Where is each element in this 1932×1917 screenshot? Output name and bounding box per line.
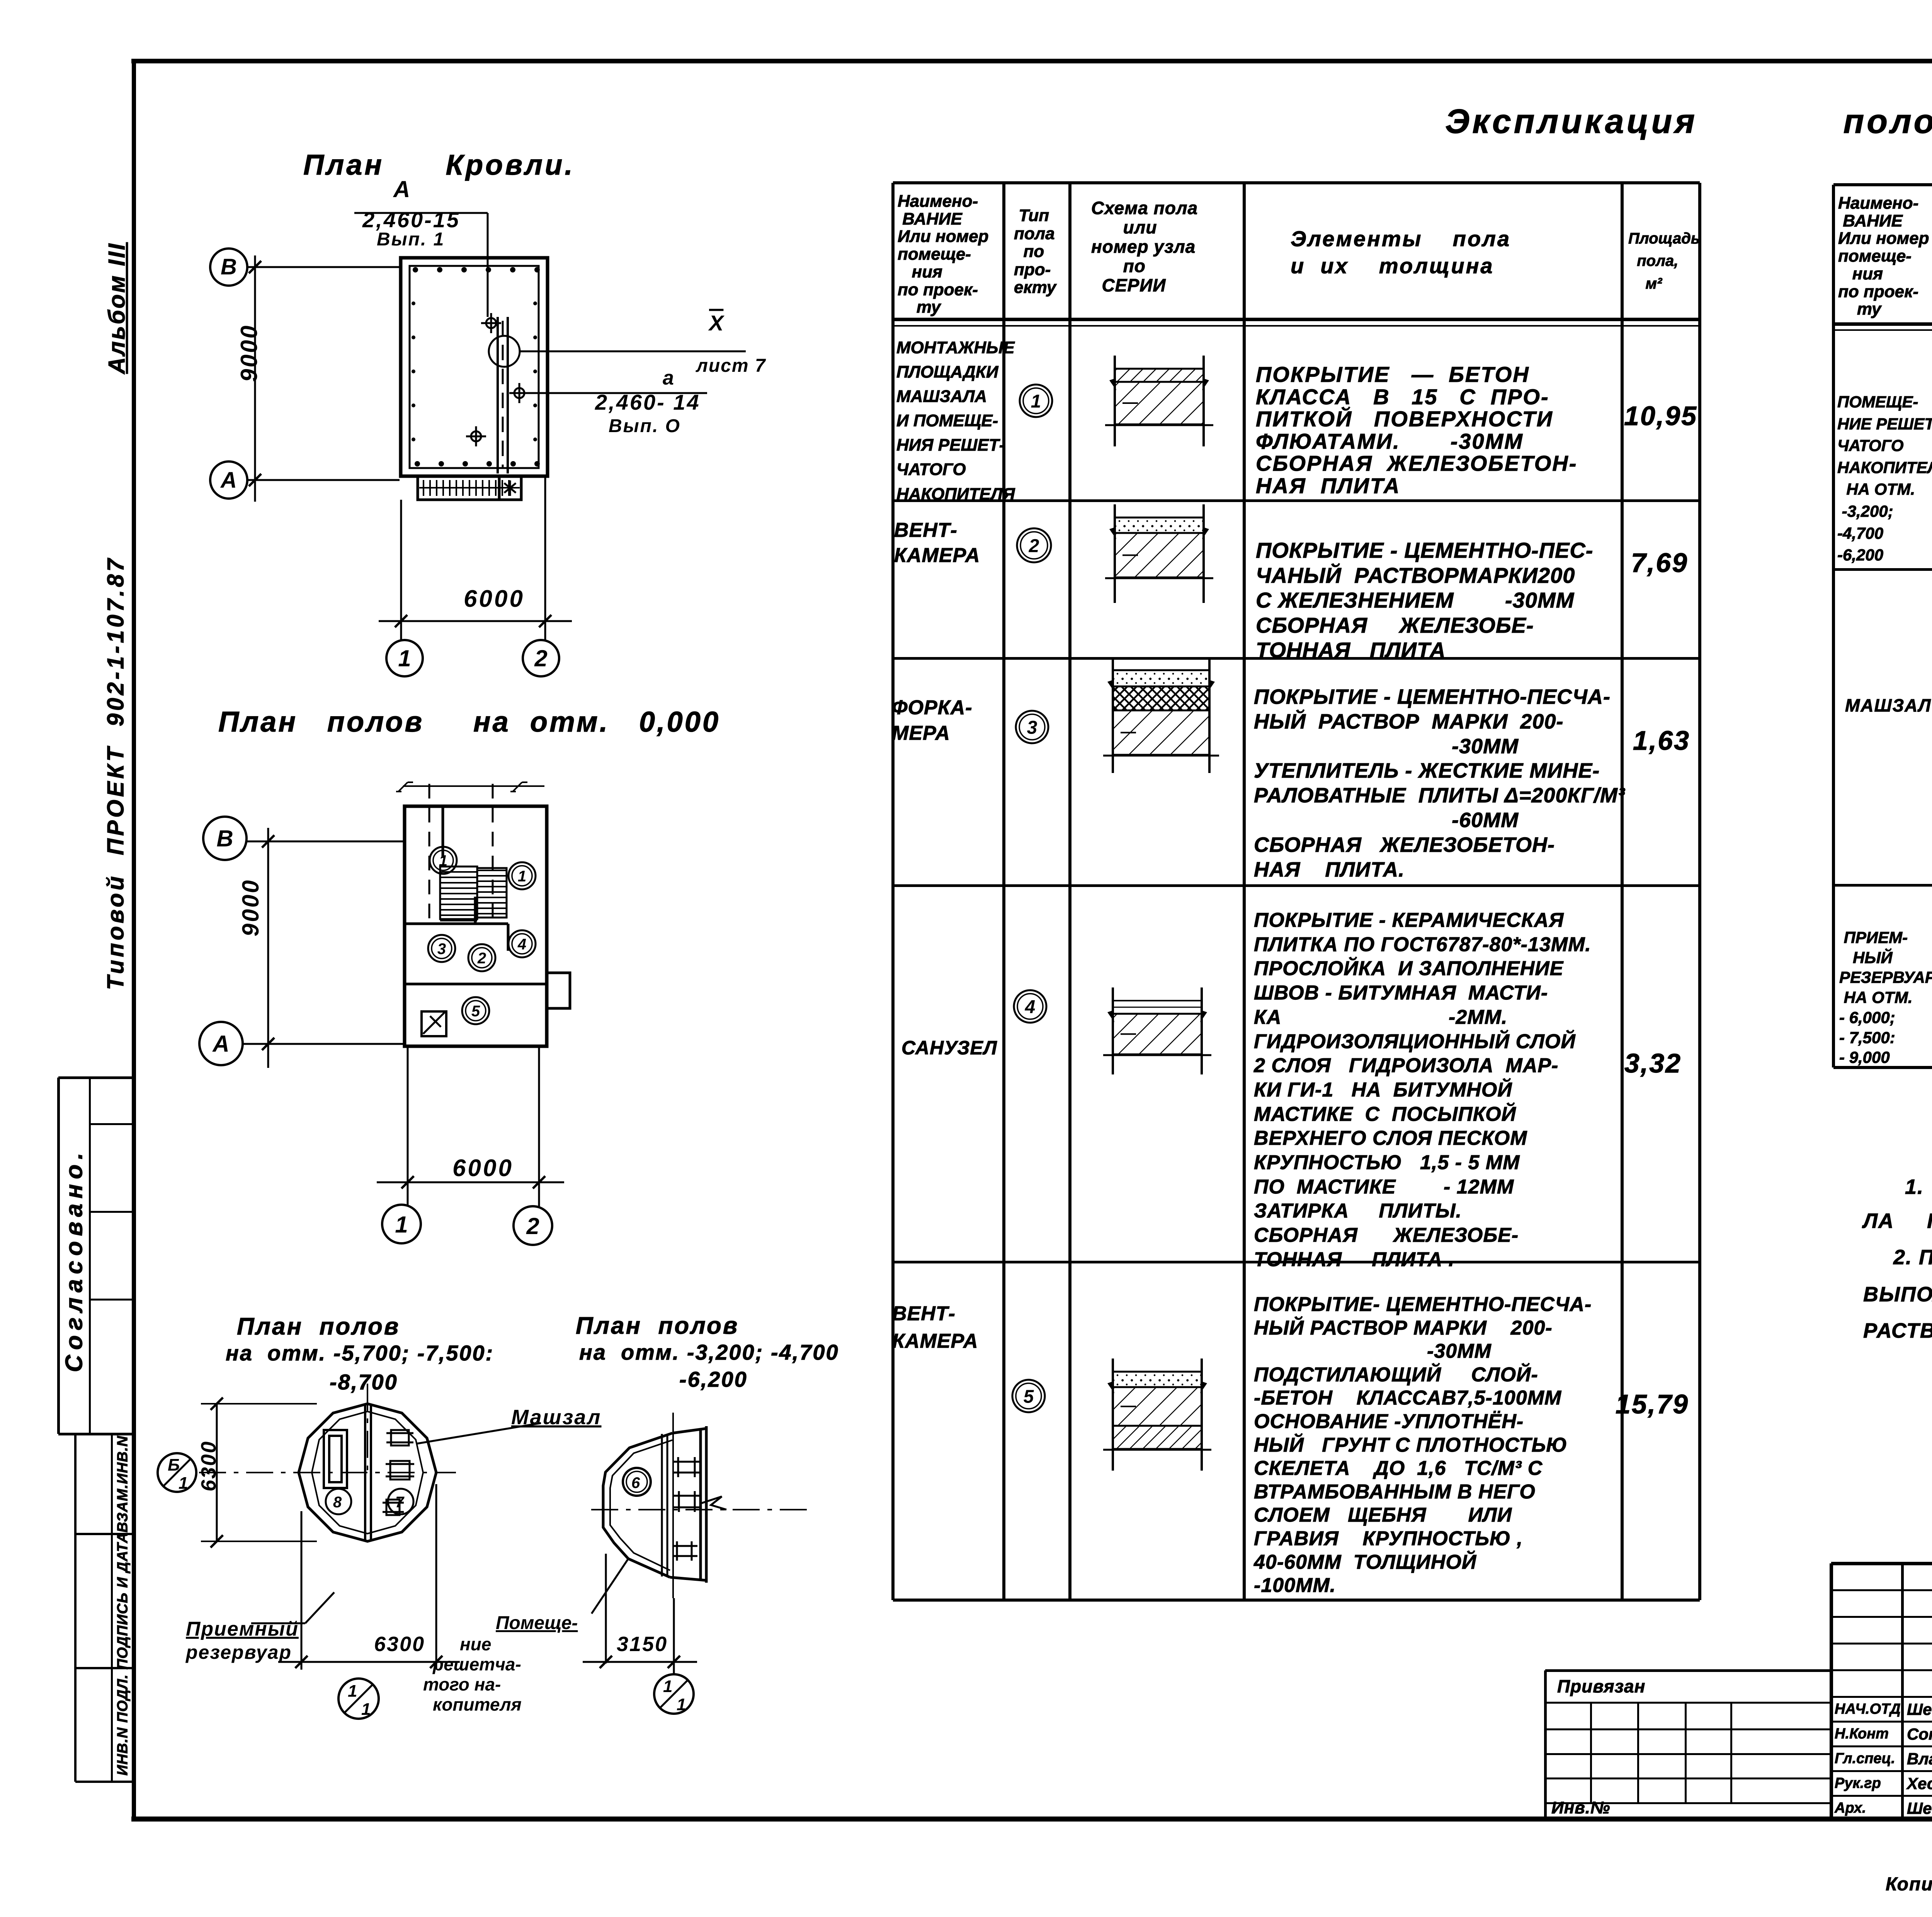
svg-text:7: 7 [395, 1494, 405, 1511]
svg-text:а: а [663, 367, 674, 389]
svg-text:1: 1 [518, 868, 526, 885]
svg-text:Машзал: Машзал [511, 1406, 602, 1429]
svg-text:Приемный: Приемный [186, 1618, 299, 1640]
svg-text:1: 1 [361, 1700, 371, 1719]
svg-text:копителя: копителя [433, 1694, 522, 1714]
svg-text:Вып. О: Вып. О [609, 416, 681, 436]
svg-text:2: 2 [526, 1213, 539, 1239]
svg-text:8: 8 [333, 1494, 342, 1511]
svg-text:В: В [216, 826, 233, 851]
svg-text:3: 3 [437, 940, 446, 957]
svg-text:Помеще-: Помеще- [496, 1613, 578, 1633]
svg-text:Б: Б [168, 1456, 180, 1474]
svg-text:9000: 9000 [238, 879, 264, 936]
svg-text:2: 2 [1029, 536, 1039, 556]
svg-text:6: 6 [631, 1474, 640, 1491]
svg-text:9000: 9000 [236, 324, 262, 382]
svg-text:1: 1 [395, 1212, 408, 1238]
svg-text:2: 2 [477, 950, 486, 967]
svg-text:1: 1 [439, 852, 447, 869]
svg-text:X: X [708, 311, 725, 335]
svg-text:2: 2 [534, 645, 547, 671]
svg-text:1: 1 [398, 645, 411, 671]
svg-text:1: 1 [179, 1474, 188, 1493]
svg-text:А: А [220, 468, 237, 493]
svg-text:1: 1 [677, 1695, 686, 1714]
svg-text:6300: 6300 [374, 1633, 425, 1656]
svg-text:6300: 6300 [197, 1440, 220, 1491]
svg-text:В: В [221, 254, 237, 279]
svg-text:того на-: того на- [423, 1674, 501, 1694]
svg-text:4: 4 [1025, 997, 1036, 1017]
svg-text:ние: ние [460, 1634, 491, 1654]
svg-text:6000: 6000 [452, 1155, 514, 1182]
svg-text:5: 5 [471, 1003, 480, 1020]
svg-text:Вып. 1: Вып. 1 [377, 229, 445, 250]
svg-text:1: 1 [663, 1677, 672, 1696]
svg-text:1: 1 [1031, 391, 1041, 412]
svg-text:4: 4 [517, 936, 526, 953]
svg-text:А: А [393, 176, 410, 202]
svg-text:6000: 6000 [464, 586, 525, 612]
svg-text:резервуар: резервуар [185, 1641, 292, 1663]
svg-text:2,460- 14: 2,460- 14 [595, 390, 701, 414]
svg-text:лист 7: лист 7 [696, 356, 766, 376]
svg-text:решетча-: решетча- [432, 1654, 521, 1674]
svg-text:5: 5 [1024, 1386, 1034, 1407]
svg-text:3150: 3150 [617, 1633, 668, 1656]
svg-text:2,460-15: 2,460-15 [362, 208, 460, 232]
svg-text:1: 1 [348, 1682, 357, 1701]
svg-text:А: А [212, 1031, 229, 1057]
svg-text:3: 3 [1027, 717, 1037, 738]
